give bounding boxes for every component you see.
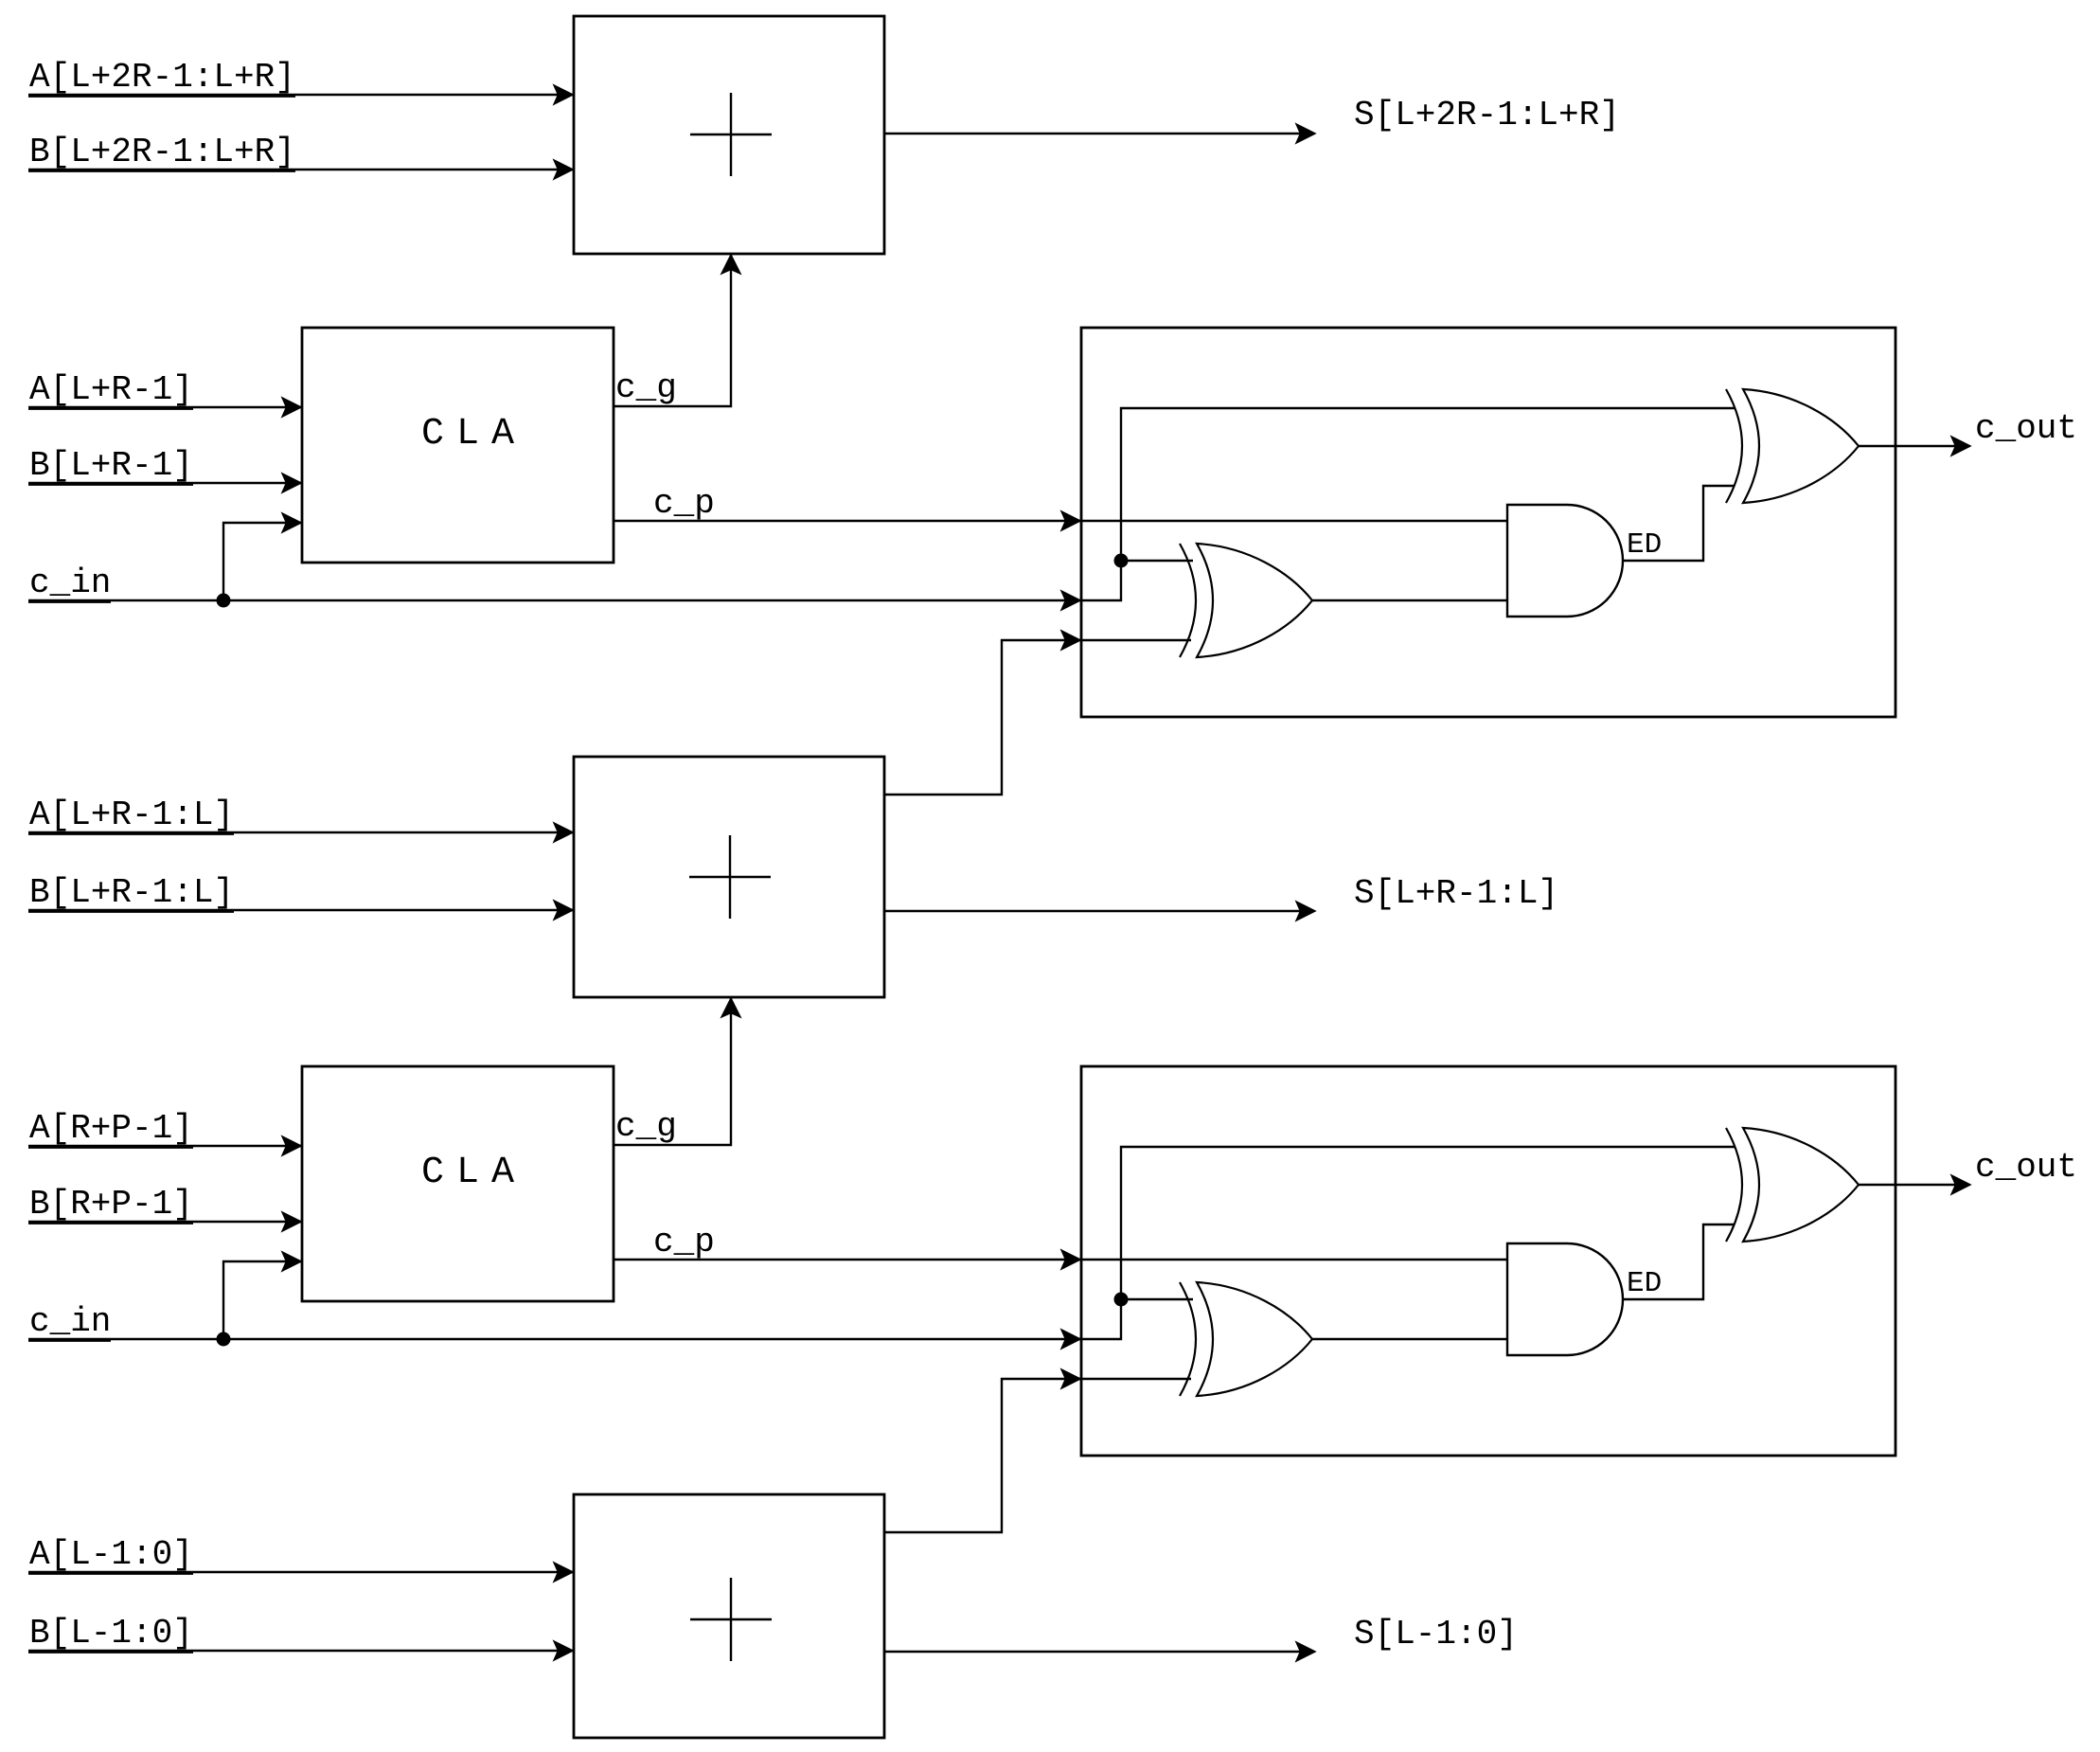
svg-text:A[L+2R-1:L+R]: A[L+2R-1:L+R] [29,58,295,97]
svg-text:B[R+P-1]: B[R+P-1] [29,1185,193,1224]
wire S[L-1:0] from U7 [884,1643,1314,1660]
adder U4 (+) middle sum block [574,757,884,997]
ED block E1 outer box [1081,328,1895,717]
svg-text:A[R+P-1]: A[R+P-1] [29,1109,193,1148]
wire A2 output (ED) to XOR X4 bottom input [1623,1225,1735,1299]
wire junction to XOR X1 top input [1121,560,1193,562]
svg-text:c_in: c_in [29,1302,111,1341]
svg-text:B[L-1:0]: B[L-1:0] [29,1614,193,1653]
svg-text:c_g: c_g [615,1107,677,1146]
CLA U3 bottom carry-lookahead block [302,1066,614,1301]
wire B[L+R-1] into U2 [28,474,302,492]
ED block E2 outer box [1081,1066,1895,1456]
node c_in junction (bottom) [217,1332,231,1347]
svg-text:S[L+2R-1:L+R]: S[L+2R-1:L+R] [1354,96,1620,134]
wire c_out from X4 [1859,1176,1969,1193]
svg-text:c_out: c_out [1975,1148,2077,1187]
svg-text:ED: ED [1627,1267,1662,1300]
wire c_p from U2 into AND gate of E1 [614,512,1507,529]
svg-text:S[L+R-1:L]: S[L+R-1:L] [1354,874,1558,913]
wire c_in branch riser into U3 [223,1253,302,1339]
wire S[L+2R-1:L+R] from U1 [884,125,1314,142]
CLA U2 top carry-lookahead block [302,328,614,563]
adder U7 (+) bottom sum block [574,1494,884,1738]
svg-text:A[L-1:0]: A[L-1:0] [29,1535,193,1574]
wire c_p from U3 into AND gate of E2 [614,1251,1507,1268]
wire A[L+R-1:L] into U4 [28,824,574,841]
svg-text:B[L+R-1:L]: B[L+R-1:L] [29,873,234,912]
wire B[L+R-1:L] into U4 [28,902,574,919]
wire c_in (bottom) into ED block E2 [28,1147,1735,1348]
wire junction to XOR X3 top input [1121,1298,1193,1300]
wire A[L+R-1] into U2 [28,399,302,416]
and gate A1 [1507,505,1623,617]
wire S[L+R-1:L] from U4 [884,903,1314,920]
svg-text:c_in: c_in [29,563,111,602]
wire carry from U4 into XOR X1 bottom input [885,632,1191,795]
svg-text:B[L+R-1]: B[L+R-1] [29,446,193,485]
wire B[L-1:0] into U7 [28,1642,574,1659]
xor gate X3 (low) [1180,1282,1196,1396]
svg-text:c_p: c_p [653,1223,715,1261]
wire A[R+P-1] into U3 [28,1137,302,1154]
wire X1 output to AND gate A1 [1312,599,1507,601]
wire X3 output to AND gate A2 [1312,1338,1507,1340]
svg-text:CLA: CLA [421,1152,526,1194]
wire A1 output (ED) to XOR X2 bottom input [1623,486,1735,561]
wire A[L-1:0] into U7 [28,1564,574,1581]
node junction on c_in riser (E2) [1114,1293,1129,1307]
wire B[R+P-1] into U3 [28,1213,302,1230]
xor gate X1 (low) [1180,544,1196,657]
svg-text:c_g: c_g [615,368,677,407]
xor gate X2 (top, c_out) [1726,389,1742,503]
adder U1 (+) top sum block [574,16,884,254]
svg-text:CLA: CLA [421,413,526,456]
node c_in junction (top) [217,594,231,608]
svg-text:c_out: c_out [1975,409,2077,448]
node junction on c_in riser (E1) [1114,554,1129,568]
wire c_g from U2 up into U1 [614,254,739,406]
svg-text:c_p: c_p [653,484,715,523]
svg-text:S[L-1:0]: S[L-1:0] [1354,1615,1518,1654]
svg-text:ED: ED [1627,528,1662,562]
svg-text:A[L+R-1]: A[L+R-1] [29,370,193,409]
wire carry from U7 into XOR X3 bottom input [885,1370,1191,1532]
wire c_g from U3 up into U4 [614,997,739,1145]
wire c_out from X2 [1859,438,1969,455]
wire A[L+2R-1:L+R] into U1 [28,86,574,103]
svg-text:A[L+R-1:L]: A[L+R-1:L] [29,796,234,834]
wire c_in (top) into ED block E1 [28,408,1735,609]
and gate A2 [1507,1243,1623,1355]
svg-text:B[L+2R-1:L+R]: B[L+2R-1:L+R] [29,133,295,171]
xor gate X4 (bottom, c_out) [1726,1128,1742,1242]
wire c_in branch riser into U2 [223,514,302,600]
wire B[L+2R-1:L+R] into U1 [28,161,574,178]
